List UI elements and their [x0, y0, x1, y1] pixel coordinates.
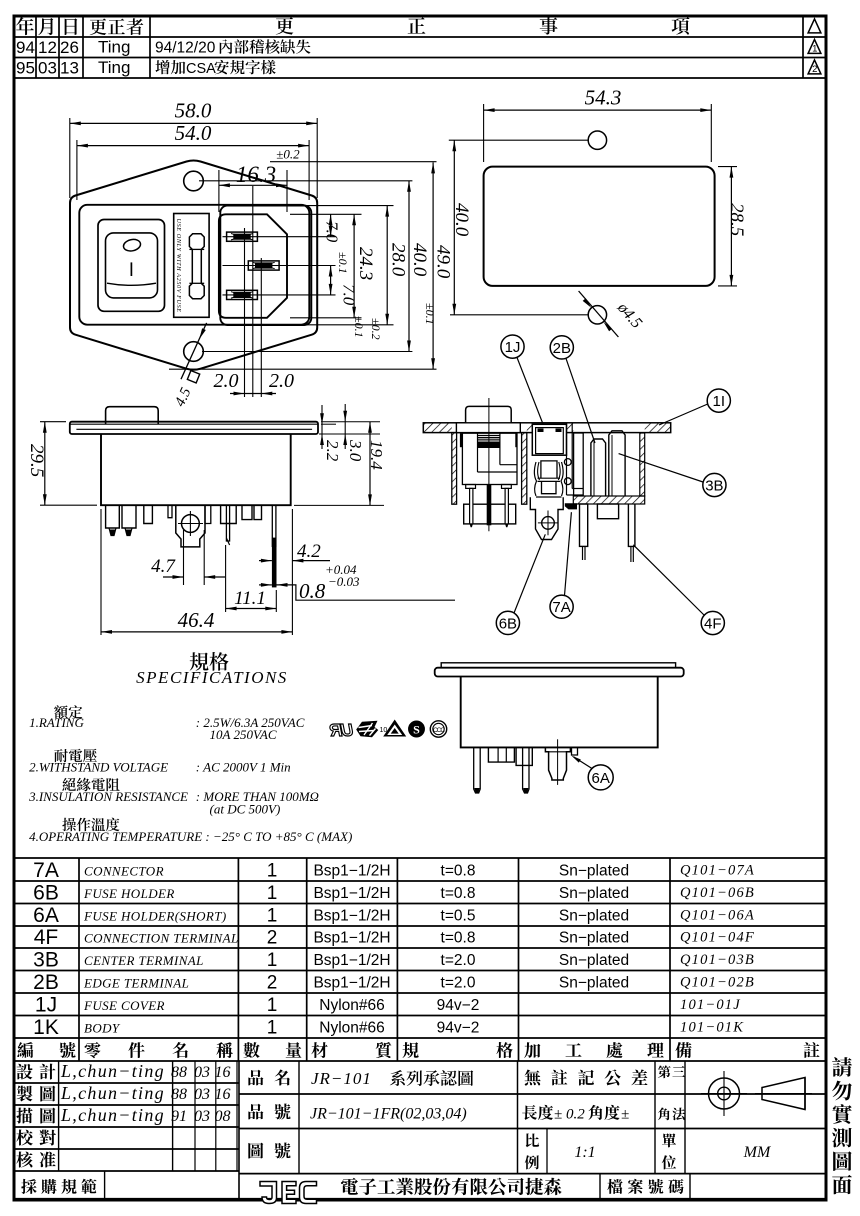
- parts header row: [17, 1042, 33, 1058]
- panel cutout rounded rect: [484, 167, 715, 286]
- svg-text:JR−101: JR−101: [311, 1069, 372, 1088]
- revision triangle 2: [808, 60, 821, 74]
- connector pins: [591, 439, 606, 496]
- svg-text:1: 1: [267, 861, 278, 882]
- title 品名: [248, 1070, 263, 1086]
- svg-text:1I: 1I: [713, 393, 726, 410]
- svg-text:±: ±: [621, 1107, 629, 1123]
- 7A connector contact black: [565, 503, 577, 509]
- dim 7.0 top: [330, 214, 332, 236]
- φ4.5 callout: [579, 291, 619, 337]
- 第三角法: [658, 1065, 671, 1078]
- svg-text:FUSE HOLDER: FUSE HOLDER: [83, 886, 175, 901]
- svg-text:10: 10: [380, 727, 388, 734]
- svg-text:7A: 7A: [33, 859, 59, 882]
- section flange bar: [423, 423, 670, 433]
- connector recess walls: [574, 433, 584, 496]
- IEC pin bottom (L): [227, 290, 258, 299]
- svg-text:6A: 6A: [33, 904, 59, 927]
- fuse cap slot: [189, 234, 204, 299]
- svg-text:91: 91: [171, 1108, 187, 1125]
- svg-text:JR−101−1FR(02,03,04): JR−101−1FR(02,03,04): [310, 1106, 467, 1123]
- dim 0.8 +0.04 -0.03: [259, 584, 272, 586]
- svg-text:1: 1: [267, 950, 278, 971]
- svg-text:±0.2: ±0.2: [369, 318, 383, 340]
- svg-text:SPECIFICATIONS: SPECIFICATIONS: [136, 668, 288, 687]
- svg-text:Nylon#66: Nylon#66: [319, 1020, 385, 1037]
- do-not-scale notice vertical: [832, 1057, 852, 1077]
- svg-text:2.0: 2.0: [214, 370, 239, 392]
- svg-text:7A: 7A: [552, 599, 570, 616]
- svg-text:94v−2: 94v−2: [437, 997, 480, 1014]
- third angle projection symbol cone: [762, 1078, 805, 1110]
- svg-text:FUSE COVER: FUSE COVER: [83, 998, 165, 1013]
- svg-text:1K: 1K: [33, 1016, 59, 1039]
- svg-text:CONNECTION TERMINAL: CONNECTION TERMINAL: [84, 931, 239, 946]
- dim 4.2: [259, 560, 272, 562]
- 比例: [526, 1133, 539, 1147]
- bottom view terminal blocks: [488, 747, 514, 762]
- balloon 4F: [701, 611, 724, 634]
- svg-text:CONNECTOR: CONNECTOR: [84, 864, 164, 879]
- svg-text:0.8: 0.8: [299, 579, 326, 603]
- svg-text:t=0.5: t=0.5: [441, 908, 476, 925]
- svg-text:1J: 1J: [35, 994, 57, 1017]
- svg-text:L,chun−ting: L,chun−ting: [60, 1083, 165, 1103]
- svg-text:16: 16: [215, 1086, 231, 1103]
- spec 1 rating: [54, 705, 67, 719]
- svg-text:03: 03: [194, 1086, 210, 1103]
- dim 24.3: [353, 214, 355, 317]
- hole center line bottom: [202, 351, 412, 353]
- svg-text:28.0: 28.0: [388, 243, 409, 277]
- svg-text:6B: 6B: [499, 615, 517, 632]
- bottom band 檔案號碼: [599, 1174, 601, 1199]
- rocker I symbol: [130, 262, 132, 276]
- svg-text:49.0: 49.0: [433, 245, 454, 279]
- svg-text:Q101−06A: Q101−06A: [680, 908, 755, 924]
- svg-text:2: 2: [267, 973, 278, 994]
- fuse cavity hinge circles: [564, 459, 571, 466]
- svg-text:16: 16: [215, 1064, 231, 1081]
- pin horizontal center lines: [223, 236, 336, 238]
- svg-text:L,chun−ting: L,chun−ting: [60, 1105, 165, 1125]
- svg-text:t=0.8: t=0.8: [441, 885, 476, 902]
- dim 7.0 bottom: [330, 266, 332, 295]
- svg-text:Bsp1−1/2H: Bsp1−1/2H: [313, 975, 390, 992]
- svg-text:S: S: [413, 723, 420, 737]
- cutout hole top: [588, 131, 606, 149]
- svg-text:3.INSULATION RESISTANCE: 3.INSULATION RESISTANCE: [28, 789, 188, 804]
- switch contact feet and pins: [466, 485, 476, 489]
- svg-text:88: 88: [171, 1086, 187, 1103]
- hole center line top: [199, 180, 412, 182]
- svg-text:UR: UR: [329, 720, 353, 740]
- svg-text:26: 26: [60, 38, 79, 57]
- svg-text:6A: 6A: [592, 770, 610, 787]
- revision triangle 1: [808, 39, 821, 53]
- dim 28.5: [730, 167, 732, 286]
- svg-text:7.0: 7.0: [340, 284, 359, 306]
- title block left labels: [17, 1064, 33, 1080]
- fuse holder below (6B): [530, 497, 563, 539]
- dim 46.4: [100, 509, 102, 635]
- dim 54.3: [484, 109, 712, 111]
- right extension lines: [290, 205, 394, 207]
- svg-text:11.1: 11.1: [234, 588, 266, 609]
- svg-text:3B: 3B: [33, 949, 59, 972]
- svg-text:4.OPERATING TEMPERATURE : −25°: 4.OPERATING TEMPERATURE : −25° C TO +85°…: [29, 829, 352, 844]
- svg-text:4.2: 4.2: [297, 541, 321, 562]
- svg-text:CCC: CCC: [433, 727, 445, 734]
- svg-text:19.4: 19.4: [367, 440, 386, 470]
- svg-text:Q101−07A: Q101−07A: [680, 863, 755, 879]
- svg-text:1: 1: [267, 1018, 278, 1039]
- svg-text:1: 1: [267, 906, 278, 927]
- title block right grid: [239, 1093, 826, 1095]
- JEC logo: [260, 1182, 317, 1204]
- fuse holder rect: [174, 214, 209, 318]
- balloon 3B: [703, 473, 726, 496]
- IEC inlet recess: [219, 214, 287, 317]
- svg-text:29.5: 29.5: [26, 444, 47, 477]
- VDE triangle mark: [383, 720, 406, 737]
- title 品號: [248, 1104, 263, 1120]
- balloon 7A: [550, 595, 573, 618]
- balloon 2B: [550, 336, 573, 359]
- svg-text:MM: MM: [743, 1144, 772, 1161]
- S mark: [409, 721, 425, 737]
- 無註記公差: [525, 1069, 541, 1085]
- balloon 1I: [707, 389, 730, 412]
- svg-text:t=2.0: t=2.0: [441, 952, 476, 969]
- front recessed panel rounded rect: [79, 205, 309, 325]
- svg-text:94v−2: 94v−2: [437, 1020, 480, 1037]
- dim 16.3: [219, 184, 287, 186]
- title block left grid: [14, 1082, 239, 1084]
- svg-text:t=2.0: t=2.0: [441, 975, 476, 992]
- cutout hole bottom: [588, 306, 606, 324]
- IEC pin top (N): [227, 232, 258, 241]
- bottom view fuse holder short (6A): [545, 747, 570, 780]
- dim 58.0: [70, 122, 317, 124]
- svg-text:1: 1: [267, 995, 278, 1016]
- dim 54.0: [77, 145, 309, 147]
- parts table grid: [14, 857, 826, 859]
- svg-text:Q101−02B: Q101−02B: [680, 975, 755, 991]
- revision triangle blank: [808, 19, 821, 33]
- svg-text:13: 13: [60, 59, 79, 78]
- section switch bump: [466, 406, 512, 423]
- svg-text:±0.1: ±0.1: [352, 316, 366, 338]
- section fuse/connector wall: [566, 423, 568, 495]
- svg-text:6B: 6B: [33, 882, 59, 905]
- dim 40.0 cutout: [453, 140, 455, 315]
- UL recognized (reversed RU) logo: [329, 720, 353, 740]
- svg-text:EDGE TERMINAL: EDGE TERMINAL: [83, 976, 189, 991]
- svg-text:2.0: 2.0: [269, 370, 294, 392]
- spec title: [190, 652, 209, 671]
- svg-text:Bsp1−1/2H: Bsp1−1/2H: [313, 863, 390, 880]
- svg-text:16.3: 16.3: [236, 162, 276, 187]
- svg-text:40.0: 40.0: [451, 203, 472, 237]
- svg-text:Ting: Ting: [98, 38, 130, 57]
- svg-text:2.WITHSTAND VOLTAGE: 2.WITHSTAND VOLTAGE: [29, 760, 168, 775]
- svg-text:±0.2: ±0.2: [276, 147, 300, 162]
- svg-text:Sn−plated: Sn−plated: [559, 952, 629, 969]
- dim 2.0 2.0 bottom: [230, 393, 276, 395]
- switch centerline: [488, 398, 490, 531]
- cert mark 2: [356, 721, 378, 738]
- 49.0 bottom extension: [169, 368, 437, 370]
- svg-text:FUSE HOLDER(SHORT): FUSE HOLDER(SHORT): [83, 909, 227, 924]
- switch lower housing: [464, 504, 516, 524]
- svg-text:−0.03: −0.03: [328, 574, 360, 589]
- svg-text:CSA: CSA: [186, 61, 216, 77]
- dim 29.5: [44, 422, 46, 506]
- rocker switch button: [106, 233, 158, 298]
- svg-text:94/12/20: 94/12/20: [155, 40, 216, 57]
- front mounting hole top: [184, 171, 204, 191]
- svg-text:4F: 4F: [704, 616, 722, 633]
- front mounting hole bottom: [184, 342, 204, 362]
- fuse clip bobbin: [541, 461, 557, 478]
- IEC inlet bezel: [220, 206, 311, 325]
- svg-text:10A 250VAC: 10A 250VAC: [210, 727, 277, 742]
- svg-text:Bsp1−1/2H: Bsp1−1/2H: [313, 908, 390, 925]
- svg-text:Nylon#66: Nylon#66: [319, 997, 385, 1014]
- fuse cover (1J): [532, 424, 566, 455]
- svg-text:±0.1: ±0.1: [336, 252, 350, 274]
- dim 11.1: [225, 545, 227, 612]
- svg-text:03: 03: [38, 59, 57, 78]
- svg-text:2B: 2B: [553, 340, 571, 357]
- rocker switch bezel: [98, 220, 165, 312]
- bottom view flange: [441, 663, 675, 668]
- section switch interior: [462, 433, 517, 484]
- svg-text:Sn−plated: Sn−plated: [559, 975, 629, 992]
- svg-text:4.7: 4.7: [151, 556, 176, 577]
- svg-text:±0.1: ±0.1: [423, 303, 437, 325]
- svg-text:4F: 4F: [34, 926, 59, 949]
- svg-text:Sn−plated: Sn−plated: [559, 885, 629, 902]
- svg-text:3B: 3B: [705, 478, 723, 495]
- svg-text:7.0: 7.0: [323, 221, 342, 243]
- section switch bezel bar: [456, 423, 520, 433]
- balloon 1J: [501, 335, 524, 358]
- svg-text:54.0: 54.0: [175, 121, 212, 145]
- connector terminals below: [580, 504, 588, 546]
- svg-text:Q101−04F: Q101−04F: [680, 930, 755, 946]
- svg-text:Bsp1−1/2H: Bsp1−1/2H: [313, 885, 390, 902]
- side view edge terminal with thickness 0.8: [271, 505, 273, 547]
- svg-text:101−01J: 101−01J: [680, 997, 741, 1013]
- svg-text:2: 2: [267, 928, 278, 949]
- svg-text:2B: 2B: [33, 971, 59, 994]
- svg-text:03: 03: [194, 1064, 210, 1081]
- spec 4 operating temp: [62, 818, 76, 831]
- svg-text:Q101−06B: Q101−06B: [680, 885, 755, 901]
- side view switch bump: [106, 407, 159, 425]
- svg-text:Q101−03B: Q101−03B: [680, 952, 755, 968]
- cutout hole center lines: [449, 139, 588, 141]
- side view flange plate: [70, 422, 318, 434]
- svg-text:58.0: 58.0: [175, 99, 212, 123]
- spec 3 insulation: [62, 778, 76, 791]
- svg-text:03: 03: [194, 1108, 210, 1125]
- side view switch pins: [168, 505, 172, 518]
- svg-text:Sn−plated: Sn−plated: [559, 930, 629, 947]
- title 圖號: [248, 1143, 263, 1159]
- svg-text:1: 1: [812, 44, 817, 55]
- switch coil spring: [478, 436, 500, 440]
- svg-text:CENTER TERMINAL: CENTER TERMINAL: [84, 953, 204, 968]
- svg-text:L,chun−ting: L,chun−ting: [60, 1061, 165, 1081]
- svg-text:101−01K: 101−01K: [680, 1020, 744, 1036]
- svg-text:1J: 1J: [505, 339, 521, 356]
- section switch right wall: [522, 433, 527, 505]
- side view fuse holder: [176, 505, 205, 547]
- side view body: [101, 434, 291, 505]
- bottom view body: [461, 677, 658, 748]
- svg-text:USE ONLY WITH A250V FUSE: USE ONLY WITH A250V FUSE: [175, 219, 182, 313]
- svg-text:54.3: 54.3: [585, 86, 622, 110]
- balloon 6B: [496, 611, 519, 634]
- front view: flange hexagon outline: [70, 160, 317, 369]
- svg-text:2: 2: [812, 64, 817, 75]
- dim 49.0: [432, 162, 434, 369]
- svg-text:08: 08: [215, 1108, 231, 1125]
- CCC mark: [430, 721, 446, 737]
- side view terminal blocks: [221, 505, 237, 523]
- rocker O symbol: [122, 238, 141, 253]
- third angle projection symbol circle: [709, 1078, 740, 1109]
- svg-text:Ting: Ting: [98, 58, 130, 77]
- svg-text:94: 94: [16, 38, 35, 57]
- svg-text:Sn−plated: Sn−plated: [559, 863, 629, 880]
- svg-text:t=0.8: t=0.8: [441, 930, 476, 947]
- svg-text:46.4: 46.4: [178, 608, 215, 632]
- dims 2.2 3.0 19.4: [321, 405, 323, 449]
- dim 4.7: [183, 530, 185, 585]
- pin vertical center lines: [244, 228, 246, 397]
- svg-text:BODY: BODY: [84, 1021, 121, 1036]
- company name: [341, 1178, 358, 1195]
- svg-text:Bsp1−1/2H: Bsp1−1/2H: [313, 952, 390, 969]
- dim 28.0: [386, 206, 388, 325]
- svg-text:(at DC 500V): (at DC 500V): [210, 802, 281, 817]
- svg-text:95: 95: [16, 59, 35, 78]
- 單位: [662, 1133, 676, 1147]
- svg-text:24.3: 24.3: [355, 247, 376, 280]
- side view inner pin: [226, 505, 229, 541]
- svg-text:Sn−plated: Sn−plated: [559, 908, 629, 925]
- IEC pin middle (E): [248, 261, 279, 270]
- side view left terminals: [106, 505, 120, 528]
- svg-text:12: 12: [38, 38, 57, 57]
- revision table: [14, 36, 826, 38]
- svg-text:2.2: 2.2: [323, 440, 342, 462]
- svg-text:t=0.8: t=0.8: [441, 863, 476, 880]
- square 4.5 hole callout: [181, 323, 207, 379]
- dim 40.0: [408, 181, 410, 352]
- svg-text:40.0: 40.0: [409, 243, 430, 277]
- bottom view left pins: [474, 747, 481, 793]
- svg-text:1: 1: [267, 883, 278, 904]
- svg-text:28.5: 28.5: [726, 203, 747, 236]
- spec 2 withstand: [54, 749, 68, 762]
- svg-text:: AC 2000V 1 Min: : AC 2000V 1 Min: [196, 760, 291, 775]
- balloon 6A: [588, 765, 613, 790]
- svg-text:Bsp1−1/2H: Bsp1−1/2H: [313, 930, 390, 947]
- svg-text:1.RATING: 1.RATING: [29, 715, 84, 730]
- section switch left wall: [452, 433, 457, 505]
- svg-text:88: 88: [171, 1064, 187, 1081]
- svg-text:± 0.2: ± 0.2: [554, 1107, 585, 1123]
- svg-text:1:1: 1:1: [574, 1144, 595, 1161]
- svg-text:3.0: 3.0: [346, 439, 365, 462]
